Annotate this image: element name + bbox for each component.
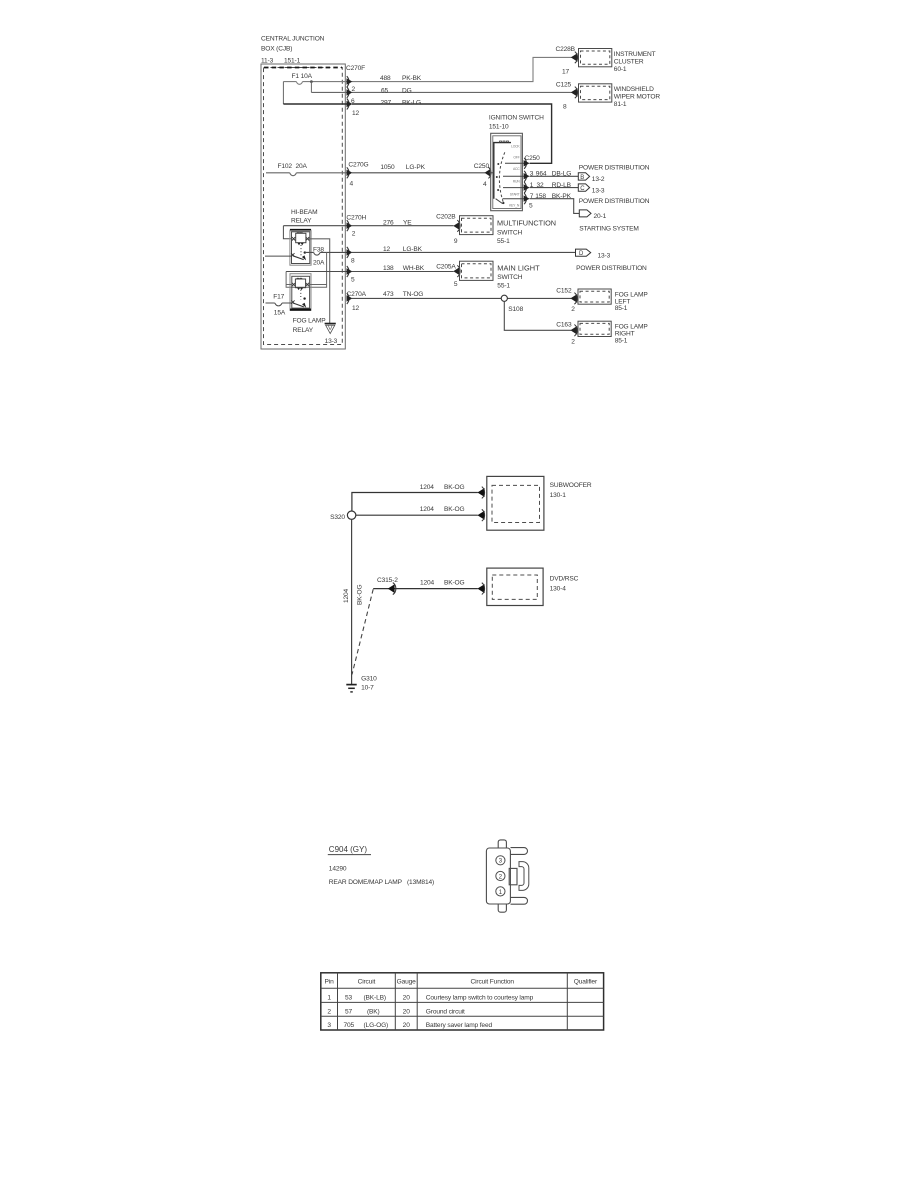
svg-text:C270H: C270H — [346, 214, 366, 221]
hi-beam relay outer box — [290, 231, 311, 266]
fog armature — [293, 303, 304, 307]
ground symbol in CJB — [325, 323, 336, 325]
pin bracket C270F wire 297 — [347, 99, 349, 110]
svg-text:STARTING SYSTEM: STARTING SYSTEM — [579, 225, 638, 232]
pin cavity 1 — [496, 887, 505, 896]
hi-beam switch feed wire — [265, 255, 292, 257]
hi-beam coil terminal X left — [292, 237, 295, 240]
svg-text:REAR DOME/MAP LAMP: REAR DOME/MAP LAMP — [329, 879, 403, 886]
svg-text:5: 5 — [529, 203, 533, 210]
fog coil terminal X left — [292, 283, 295, 286]
wire 138 loop top to pin 5 — [286, 271, 347, 273]
svg-text:2: 2 — [571, 306, 575, 313]
ignition switch inner box — [493, 136, 521, 209]
rotary wiper dashed arc — [499, 152, 504, 203]
svg-text:FOG LAMP: FOG LAMP — [615, 291, 649, 298]
connector C125 arrow — [571, 88, 578, 97]
svg-text:LOCK: LOCK — [511, 145, 520, 149]
svg-text:MAIN LIGHT: MAIN LIGHT — [497, 263, 540, 272]
svg-text:5: 5 — [351, 277, 355, 284]
subwoofer arrow upper — [477, 488, 484, 497]
svg-text:85-1: 85-1 — [615, 305, 628, 312]
svg-text:HI-BEAM: HI-BEAM — [291, 209, 317, 216]
svg-text:13-3: 13-3 — [325, 338, 338, 345]
pin table outer border — [321, 973, 604, 1030]
fog coil terminal X right — [306, 283, 309, 286]
svg-text:(LG-OG): (LG-OG) — [364, 1022, 389, 1029]
svg-text:1204: 1204 — [420, 484, 435, 491]
svg-text:2: 2 — [499, 874, 503, 880]
hi-beam common dot — [304, 251, 306, 253]
dvd-rsc arrow — [477, 584, 484, 593]
svg-text:POWER DISTRIBUTION: POWER DISTRIBUTION — [576, 265, 647, 272]
fog fixed contact X — [291, 300, 294, 303]
wire 158 BK-PK — [530, 199, 579, 214]
svg-text:G310: G310 — [361, 676, 377, 683]
svg-text:(BK-LB): (BK-LB) — [364, 995, 386, 1002]
table row 2 pin 57 BK — [327, 1008, 465, 1015]
svg-text:Courtesy lamp switch to courte: Courtesy lamp switch to courtesy lamp — [426, 995, 534, 1002]
svg-text:BOX (CJB): BOX (CJB) — [261, 46, 292, 53]
connector C163 box — [578, 321, 611, 336]
svg-text:POWER DISTRIBUTION: POWER DISTRIBUTION — [579, 164, 650, 171]
connector C904 bottom prong — [510, 897, 527, 904]
dashed drain wire to ground — [352, 589, 373, 674]
CJB top bold dashed edge — [264, 67, 342, 69]
ref arrow D starting system — [579, 210, 591, 217]
hi-beam linkage dots — [300, 245, 302, 256]
svg-text:F102: F102 — [278, 163, 293, 170]
ref arrow D power distribution 13-3 — [576, 249, 591, 256]
svg-text:13-3: 13-3 — [592, 187, 605, 194]
hi-beam coil right lead down to ground — [308, 239, 330, 324]
svg-text:SUBWOOFER: SUBWOOFER — [550, 482, 592, 489]
svg-text:TN-OG: TN-OG — [403, 291, 424, 298]
svg-text:53: 53 — [345, 995, 353, 1002]
svg-text:60-1: 60-1 — [614, 66, 627, 73]
svg-text:C904 (GY): C904 (GY) — [329, 845, 368, 854]
fog lamp relay title — [293, 318, 327, 334]
fog lamp relay thick bottom — [290, 309, 311, 311]
svg-text:705: 705 — [344, 1022, 355, 1029]
svg-text:MULTIFUNCTION: MULTIFUNCTION — [497, 219, 556, 228]
connector C202B arrow — [453, 222, 460, 231]
wire 32 RD-LB — [530, 187, 578, 189]
fog lamp relay inner box — [292, 276, 310, 308]
svg-text:C202B: C202B — [436, 213, 456, 220]
svg-text:20: 20 — [403, 1022, 411, 1029]
wire branch to 65 DG — [310, 82, 312, 93]
central junction box title — [261, 36, 325, 65]
svg-text:CLUSTER: CLUSTER — [614, 59, 644, 66]
svg-text:2: 2 — [352, 86, 356, 93]
svg-text:RIGHT: RIGHT — [615, 330, 635, 337]
wire coil feed to pin 2 C270H — [283, 225, 347, 227]
table row 1 pin 53 BK-LB — [327, 995, 533, 1002]
fuse F102 symbol and wire — [266, 173, 347, 176]
pin bracket C270H — [347, 220, 349, 231]
position labels — [509, 145, 520, 208]
connector C152 box — [578, 289, 611, 304]
fuse F1 symbol on wire 488 — [283, 82, 347, 85]
svg-text:Circuit: Circuit — [358, 979, 376, 986]
svg-text:13-2: 13-2 — [592, 176, 605, 183]
svg-text:C228B: C228B — [556, 46, 576, 53]
pin bracket C250 top — [524, 158, 526, 169]
svg-text:WH-BK: WH-BK — [403, 265, 425, 272]
svg-text:14290: 14290 — [329, 866, 347, 873]
fuse F17 labels — [273, 294, 286, 317]
svg-text:130-1: 130-1 — [550, 492, 567, 499]
svg-text:IGNITION SWITCH: IGNITION SWITCH — [489, 115, 544, 122]
svg-text:F17: F17 — [273, 294, 284, 301]
svg-text:C205A: C205A — [436, 264, 456, 271]
svg-text:3: 3 — [499, 859, 503, 865]
svg-text:DG: DG — [402, 88, 412, 95]
wire branch left vertical F1 — [282, 82, 284, 104]
fuse F38 labels — [313, 246, 325, 266]
svg-text:C125: C125 — [556, 82, 572, 89]
internal wire to pin 3 — [503, 175, 525, 177]
svg-text:C152: C152 — [556, 288, 572, 295]
svg-text:20: 20 — [403, 995, 411, 1002]
subwoofer box — [487, 476, 544, 530]
hi-beam relay title — [291, 209, 317, 224]
svg-text:YE: YE — [403, 220, 412, 227]
svg-text:ACC: ACC — [513, 167, 520, 171]
svg-text:Battery saver lamp feed: Battery saver lamp feed — [426, 1022, 493, 1029]
C250 left arrow — [484, 169, 491, 177]
wire 276 YE — [352, 225, 454, 227]
svg-text:1: 1 — [327, 995, 331, 1002]
svg-text:13-3: 13-3 — [598, 253, 611, 260]
pin bracket C270F wire 488 — [347, 76, 349, 87]
connector C904 body — [486, 848, 510, 904]
svg-text:BK-OG: BK-OG — [444, 506, 465, 513]
svg-text:297: 297 — [381, 100, 392, 107]
ignition switch title — [489, 115, 544, 131]
table row 3 pin 705 LG-OG — [327, 1022, 492, 1029]
svg-text:BK-OG: BK-OG — [444, 484, 465, 491]
connector C202B box — [460, 216, 494, 235]
svg-text:85-1: 85-1 — [615, 338, 628, 345]
ignition switch outer box — [491, 133, 523, 210]
connector C163 arrow — [570, 326, 577, 335]
svg-text:WINDSHIELD: WINDSHIELD — [614, 86, 654, 93]
wire coil left lead — [283, 226, 292, 239]
svg-text:1: 1 — [499, 890, 503, 896]
svg-text:FOG LAMP: FOG LAMP — [615, 323, 649, 330]
svg-text:F1 10A: F1 10A — [292, 73, 313, 80]
CJB inner dashed box — [264, 68, 343, 345]
ref arrow B — [578, 173, 589, 180]
hi-beam coil terminal X right — [306, 237, 309, 240]
hi-beam armature — [293, 256, 304, 260]
svg-text:138: 138 — [383, 265, 394, 272]
wire 1204 BK-OG upper to subwoofer — [352, 493, 478, 512]
wire 65 DG to C125 — [311, 91, 571, 93]
wire 12 LG-BK — [352, 251, 575, 253]
svg-text:Pin: Pin — [325, 979, 335, 986]
svg-text:C250: C250 — [525, 155, 541, 162]
svg-text:151-10: 151-10 — [489, 124, 509, 131]
svg-text:81-1: 81-1 — [614, 101, 627, 108]
pin bracket pin 8 — [347, 247, 349, 258]
connector C125 box — [579, 84, 612, 102]
svg-text:(13M814): (13M814) — [407, 879, 434, 886]
svg-text:17: 17 — [562, 69, 570, 76]
internal wire to pin 7 — [503, 198, 525, 200]
wiper contact dots — [497, 163, 499, 165]
wire 473 TN-OG — [352, 297, 571, 299]
pin bracket pin 7 — [524, 193, 526, 204]
hi-beam relay inner box — [292, 232, 310, 264]
svg-text:276: 276 — [383, 220, 394, 227]
svg-text:OFF: OFF — [513, 156, 519, 160]
dvd-rsc box — [487, 568, 543, 605]
pin bracket pin 12 — [347, 293, 349, 304]
pin bracket pin 5 — [347, 266, 349, 277]
connector C904 top tab — [498, 840, 506, 848]
wire 297 BK-LG — [283, 104, 551, 163]
wire 1050 LG-PK — [352, 172, 485, 174]
svg-text:POWER DISTRIBUTION: POWER DISTRIBUTION — [579, 198, 650, 205]
connector C904 top prong — [510, 848, 527, 855]
svg-text:9: 9 — [454, 238, 458, 245]
fog lamp relay coil — [295, 279, 305, 288]
svg-text:473: 473 — [383, 291, 394, 298]
svg-text:1204: 1204 — [343, 588, 350, 603]
svg-text:C163: C163 — [556, 321, 572, 328]
svg-text:11-3: 11-3 — [261, 58, 274, 65]
svg-text:DVD/RSC: DVD/RSC — [550, 576, 579, 583]
svg-text:10-7: 10-7 — [361, 684, 374, 691]
wire 1204 BK-OG lower to subwoofer — [356, 514, 478, 516]
fog coil leads — [286, 284, 327, 286]
splice S320 — [347, 511, 355, 519]
left pin internal wire — [489, 172, 494, 174]
svg-text:SWITCH: SWITCH — [497, 229, 522, 236]
wire 488 value labels — [380, 75, 422, 107]
svg-text:Circuit Function: Circuit Function — [470, 979, 514, 986]
hi-beam fixed contact X — [291, 253, 294, 256]
svg-text:Ground circuit: Ground circuit — [426, 1008, 465, 1015]
wire junction down from pin8 wire — [286, 252, 327, 287]
svg-text:12: 12 — [352, 305, 360, 312]
wire 138 WH-BK — [352, 271, 454, 273]
svg-text:15A: 15A — [274, 310, 286, 317]
svg-text:488: 488 — [380, 75, 391, 82]
svg-text:57: 57 — [345, 1008, 353, 1015]
svg-text:20A: 20A — [313, 259, 325, 266]
detent bumps — [500, 141, 509, 143]
svg-text:12: 12 — [383, 246, 391, 253]
junction node on wire 488 — [310, 80, 313, 83]
svg-text:RUN: RUN — [513, 180, 520, 184]
wire 488 PK-BK to C228B — [352, 57, 572, 81]
svg-text:8: 8 — [351, 258, 355, 265]
connector C228B box — [579, 49, 612, 67]
pin table column lines — [338, 973, 568, 1030]
pin bracket pin 3 — [524, 171, 526, 182]
svg-text:BK-LG: BK-LG — [402, 100, 421, 107]
svg-text:20: 20 — [403, 1008, 411, 1015]
connector C904 latch hook — [519, 862, 529, 891]
in-line connector C315-2 — [388, 584, 395, 593]
svg-text:8: 8 — [563, 104, 567, 111]
svg-text:C270G: C270G — [348, 162, 368, 169]
ref arrow C — [578, 184, 589, 191]
connector C205A box — [460, 261, 494, 280]
svg-text:S320: S320 — [330, 514, 345, 521]
svg-text:FOG LAMP: FOG LAMP — [293, 318, 327, 325]
pin bracket C270F wire 65 — [347, 87, 349, 98]
wire 1204 BK-OG to DVD-RSC — [373, 588, 478, 590]
svg-text:PK-BK: PK-BK — [402, 75, 422, 82]
svg-text:S108: S108 — [508, 306, 523, 313]
hi-beam relay coil — [296, 233, 306, 242]
connector C904 latch window — [509, 868, 517, 884]
svg-text:130-4: 130-4 — [550, 586, 567, 593]
connector C152 arrow — [570, 294, 577, 303]
svg-text:1204: 1204 — [420, 579, 435, 586]
svg-text:BK-OG: BK-OG — [444, 579, 465, 586]
svg-text:151-1: 151-1 — [284, 58, 301, 65]
pin bracket pin 1 — [524, 182, 526, 193]
svg-text:1204: 1204 — [420, 506, 435, 513]
internal wire to pin 1 — [503, 187, 525, 189]
svg-text:LG-BK: LG-BK — [403, 246, 423, 253]
pin table row lines — [321, 988, 604, 1016]
svg-text:4: 4 — [350, 181, 354, 188]
CJB outer box — [261, 64, 345, 349]
pin cavity 3 — [496, 856, 505, 865]
pin number labels right — [529, 171, 572, 210]
svg-text:(BK): (BK) — [367, 1008, 380, 1015]
svg-text:12: 12 — [352, 110, 360, 117]
svg-text:KEY_N: KEY_N — [509, 203, 520, 207]
svg-text:4: 4 — [483, 181, 487, 188]
fog linkage dots — [300, 290, 302, 300]
wire 964 DB-LG — [530, 175, 578, 177]
wire S108 branch down to C163 — [504, 301, 571, 330]
wiper KEY_IN lever — [496, 199, 503, 204]
wire S320 down to G310 — [351, 519, 353, 684]
wire relay output with fuse F38 to pin 8 — [305, 252, 347, 255]
pin bracket C270G — [347, 167, 349, 178]
ignition switch internal frame — [494, 143, 511, 199]
hi-beam relay thick top — [290, 229, 311, 231]
svg-text:CENTRAL JUNCTION: CENTRAL JUNCTION — [261, 36, 325, 43]
svg-text:55-1: 55-1 — [497, 283, 510, 290]
svg-text:1050: 1050 — [380, 164, 395, 171]
svg-text:20A: 20A — [296, 163, 308, 170]
svg-text:2: 2 — [352, 231, 356, 238]
connector C228B arrow — [571, 53, 578, 62]
svg-text:2: 2 — [571, 339, 575, 346]
svg-text:RELAY: RELAY — [293, 327, 314, 334]
svg-text:C315-2: C315-2 — [377, 577, 398, 584]
internal wire to pin C250 top — [505, 162, 525, 164]
connector C904 bottom tab — [498, 904, 506, 912]
svg-text:5: 5 — [454, 281, 458, 288]
svg-text:2: 2 — [327, 1008, 331, 1015]
svg-text:BK-OG: BK-OG — [357, 584, 364, 605]
subwoofer arrow lower — [477, 511, 484, 520]
svg-text:20-1: 20-1 — [594, 213, 607, 220]
svg-text:Gauge: Gauge — [397, 979, 417, 986]
svg-text:65: 65 — [381, 88, 389, 95]
wire with fuse F17 — [266, 303, 293, 306]
svg-text:C270F: C270F — [346, 65, 365, 72]
fog common dot — [303, 297, 305, 299]
ground G310 symbol — [346, 684, 356, 686]
pin cavity 2 — [496, 871, 505, 880]
svg-text:WIPER MOTOR: WIPER MOTOR — [614, 94, 661, 101]
svg-text:B: B — [580, 175, 584, 181]
svg-text:INSTRUMENT: INSTRUMENT — [614, 51, 656, 58]
svg-text:LG-PK: LG-PK — [406, 164, 426, 171]
fog lamp relay outer box — [290, 274, 311, 311]
connector C205A arrow — [453, 267, 460, 276]
splice S108 — [501, 295, 507, 301]
svg-text:Qualifier: Qualifier — [574, 979, 598, 986]
svg-text:START: START — [510, 193, 520, 197]
svg-text:C250: C250 — [474, 163, 490, 170]
svg-text:SWITCH: SWITCH — [497, 274, 522, 281]
svg-text:3: 3 — [327, 1022, 331, 1029]
table header labels — [325, 979, 598, 986]
svg-text:RELAY: RELAY — [291, 217, 312, 224]
svg-text:55-1: 55-1 — [497, 238, 510, 245]
fuse F102 labels — [278, 163, 308, 170]
rotated wire labels 1204 BK-OG — [343, 584, 364, 605]
